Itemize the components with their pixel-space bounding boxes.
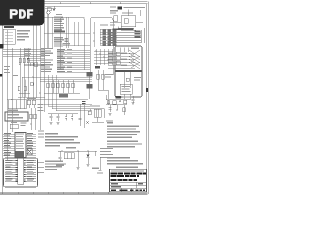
title block small top text	[111, 170, 144, 171]
antenna stub bottom middle	[97, 157, 103, 174]
connector J10 bottom-left	[4, 158, 45, 187]
wire horizontal bus mid-left	[3, 48, 45, 56]
note text right of J10	[45, 161, 66, 171]
crossover hatch in right box	[129, 50, 140, 69]
drawing title row	[111, 179, 138, 181]
crystal circuit top center	[45, 6, 80, 17]
table cell texts	[111, 183, 145, 191]
caps near X2	[27, 98, 36, 108]
bus corner bends under U1	[44, 75, 92, 111]
wire top horizontal	[44, 17, 85, 19]
inductor filter circuit center-bottom	[82, 101, 104, 128]
net label text under badge	[4, 26, 30, 40]
left edge dark marks	[0, 44, 3, 77]
jack boxes left inside right box	[116, 52, 120, 65]
power circuit bottom middle	[56, 147, 99, 169]
legend text bottom middle right	[100, 148, 113, 158]
right big box J-section	[115, 46, 142, 97]
regulator U5 box	[5, 110, 28, 121]
dark body fill U7	[16, 151, 25, 157]
wire short horizontals left of center	[11, 58, 45, 100]
left side components	[4, 58, 37, 93]
caps inside right box	[120, 48, 139, 53]
net label column upper middle	[54, 14, 69, 47]
wire vertical bus left column	[7, 18, 44, 160]
horizontal bus mid	[7, 77, 92, 100]
wires upper middle verticals	[44, 14, 90, 48]
notes text block center-left	[45, 133, 80, 146]
component box top-left under badge	[3, 29, 15, 44]
region box B rounded top	[90, 18, 113, 76]
dark bar in right box	[116, 70, 142, 72]
net stubs left of U1	[41, 48, 53, 72]
data bus rows center	[57, 43, 90, 72]
resistor row mid bottom of U1	[44, 80, 80, 98]
notes block right	[107, 122, 142, 148]
top right relay circuit	[110, 6, 145, 26]
sheet frame outer border	[0, 2, 148, 194]
junction dots ladder2	[95, 50, 108, 60]
wires below bar in right box	[120, 72, 141, 99]
mid right ladder2	[94, 49, 113, 65]
resistor R block mid right	[95, 66, 100, 69]
connector rows top right	[109, 27, 145, 44]
notes above title block	[107, 157, 143, 168]
resistor array table top right-center	[93, 22, 116, 47]
right frame edge tick	[146, 88, 148, 92]
company name bold line 2	[111, 175, 140, 177]
small box K1	[10, 104, 44, 129]
table rules	[110, 182, 147, 191]
transformer box mid right	[87, 70, 114, 99]
IC X2 left-mid with inner columns	[8, 100, 26, 109]
resistors right of U5	[30, 108, 36, 130]
PDF badge	[0, 0, 45, 25]
title block	[110, 169, 147, 192]
company name bold line 1	[111, 172, 147, 174]
decoupling caps cluster	[48, 104, 82, 126]
border tick marks	[18, 2, 120, 194]
power entry circuit right-mid	[106, 95, 135, 122]
wires rows through right box	[108, 52, 135, 68]
region box A rounded top	[60, 18, 85, 71]
diode bridge box right of U7	[27, 149, 32, 155]
IC U7 bottom-left with pin rows	[3, 131, 44, 158]
